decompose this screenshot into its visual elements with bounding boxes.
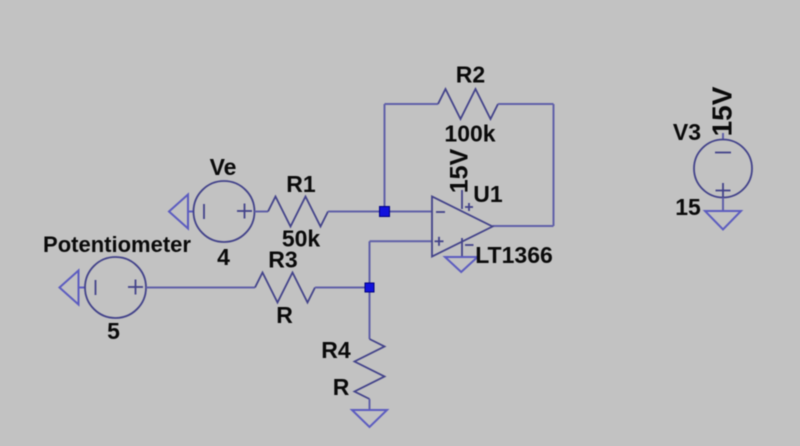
svg-text:15: 15: [675, 194, 701, 220]
wire node up: [369, 241, 371, 287]
wire node down to R4: [369, 288, 371, 340]
junction node IN-: [380, 207, 390, 217]
wire R1 to node IN-: [328, 211, 385, 213]
svg-text:Potentiometer: Potentiometer: [43, 232, 191, 257]
resistor R3: [255, 273, 315, 303]
svg-text:100k: 100k: [444, 121, 495, 147]
wire V3 top: [722, 133, 724, 140]
svg-text:U1: U1: [473, 181, 503, 207]
svg-text:R4: R4: [321, 337, 351, 363]
svg-text:LT1366: LT1366: [475, 242, 553, 268]
voltage source Ve (circle): [194, 181, 255, 242]
op-amp U1: [432, 190, 493, 257]
wire to R2 left: [385, 103, 439, 105]
wire node up to R2: [384, 104, 386, 212]
svg-text:R1: R1: [286, 171, 316, 197]
wire Potentiometer to R3: [146, 287, 255, 289]
voltage source V3 (circle): [694, 140, 752, 199]
ground below op-amp: [445, 257, 478, 272]
wire R3 to node IN+: [315, 287, 370, 289]
wire to op-amp non-inverting input: [370, 240, 433, 242]
junction node IN+: [365, 283, 374, 292]
wire feedback down: [553, 104, 555, 226]
voltage source Potentiometer (circle): [85, 257, 146, 318]
svg-text:R: R: [276, 302, 293, 328]
svg-text:15V: 15V: [707, 86, 738, 136]
ground below V3: [705, 211, 741, 230]
wire R2 right: [498, 103, 554, 105]
svg-text:15V: 15V: [446, 148, 474, 193]
resistor R1: [268, 197, 328, 227]
resistor R4: [355, 339, 385, 399]
svg-text:R2: R2: [456, 62, 485, 88]
svg-text:5: 5: [107, 318, 120, 344]
svg-text:Ve: Ve: [210, 154, 237, 180]
resistor R2: [438, 89, 498, 119]
wire V3 to ground: [722, 198, 724, 212]
wire node to op-amp inverting input: [385, 211, 432, 213]
ground flag (left of Potentiometer, pointing left): [60, 271, 86, 305]
svg-text:R: R: [333, 374, 350, 400]
svg-text:R3: R3: [268, 247, 297, 273]
wire R4 to ground: [369, 399, 371, 410]
wire Ve to R1: [255, 211, 269, 213]
ground flag (left of Ve, pointing left): [169, 195, 194, 229]
wire op-amp output: [493, 225, 554, 227]
ground below R4: [352, 410, 387, 427]
svg-text:4: 4: [217, 244, 230, 270]
svg-text:V3: V3: [673, 119, 701, 145]
